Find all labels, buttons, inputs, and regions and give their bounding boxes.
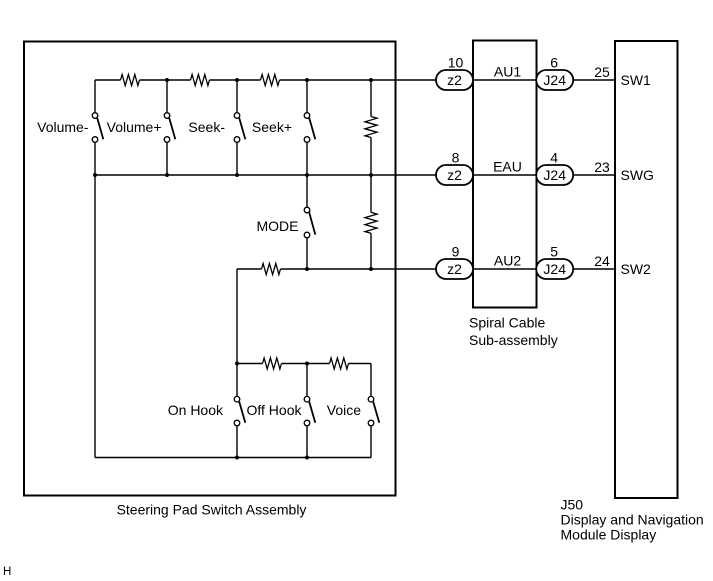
svg-text:Volume+: Volume+ [107, 119, 162, 135]
node: top bus junction at Seek- [235, 78, 239, 82]
resistor between Volume+ and Seek- [191, 75, 210, 86]
node: top bus junction at pull-up resistor column [369, 78, 373, 82]
wire: top bus segment R3 to connector z2 pin 10 [280, 79, 437, 81]
wire: AU2 between z2 and J24 inside spiral cable box [473, 268, 537, 270]
svg-text:Steering Pad Switch Assembly: Steering Pad Switch Assembly [117, 502, 307, 518]
switch Off Hook [304, 396, 315, 425]
wire: bottom bus from Volume- column to Voice column [95, 457, 371, 459]
svg-text:Voice: Voice [327, 402, 361, 418]
svg-text:SWG: SWG [621, 167, 654, 183]
svg-text:AU1: AU1 [494, 64, 521, 80]
switch MODE [304, 207, 315, 238]
wire: Voice column lower lead [370, 426, 372, 458]
resistor between Off Hook and Voice [330, 358, 349, 369]
wire: middle bus EAU from Volume- column to connector z2 pin 8 [95, 174, 437, 176]
svg-text:Module Display: Module Display [561, 527, 657, 543]
resistor vertical between middle bus and AU2 row [365, 212, 377, 233]
svg-text:5: 5 [550, 244, 558, 260]
resistor on AU2 row [262, 264, 281, 275]
wire: AU1 between z2 and J24 inside spiral cable box [473, 79, 537, 81]
svg-text:4: 4 [550, 150, 558, 166]
wire: Seek- column top lead [236, 80, 238, 113]
wire: AU2 row corner segment from hook branch riser [237, 268, 262, 270]
wire: resistor column lead into AU2 row [370, 233, 372, 269]
switch Voice [368, 396, 379, 425]
connector z2 pin 8 [436, 165, 473, 185]
wire: hook branch bus left segment [237, 363, 263, 365]
svg-text:J50: J50 [561, 497, 584, 513]
svg-text:8: 8 [452, 150, 460, 166]
node: middle bus junction at Seek- [235, 173, 239, 177]
connector J24 pin 4 [536, 165, 573, 185]
wire: top bus segment R2 to R3 [210, 79, 261, 81]
svg-text:24: 24 [594, 253, 610, 269]
wire: On Hook column upper lead [236, 364, 238, 397]
svg-text:Seek+: Seek+ [252, 119, 292, 135]
wire: Seek+ column lower lead [306, 142, 308, 175]
svg-text:Sub-assembly: Sub-assembly [469, 332, 558, 348]
svg-text:AU2: AU2 [494, 253, 521, 269]
wire: Seek- column lower lead [236, 142, 238, 175]
connector z2 pin 9 [436, 259, 473, 279]
resistor vertical between top bus and middle bus [365, 117, 377, 138]
wire: AU2 row to connector z2 pin 9 [281, 268, 437, 270]
switch Seek- [234, 113, 245, 143]
wire: hook branch bus right segment to Voice column [349, 363, 372, 365]
node: middle bus junction at Volume+ [165, 173, 169, 177]
resistor between Volume- and Volume+ [121, 75, 140, 86]
node: top bus junction at Volume+ [165, 78, 169, 82]
switch Seek+ [304, 113, 315, 143]
node: bottom bus junction at Off Hook [305, 456, 309, 460]
node: top bus junction at Seek+ [305, 78, 309, 82]
node: middle bus junction at Volume- [93, 173, 97, 177]
svg-text:25: 25 [594, 64, 610, 80]
wire: resistor column lead below middle bus [370, 175, 372, 212]
wire: MODE column upper lead from middle bus [306, 175, 308, 207]
svg-text:9: 9 [452, 244, 460, 260]
svg-text:Seek-: Seek- [188, 119, 225, 135]
svg-text:z2: z2 [447, 261, 462, 277]
node: hook bus junction at Off Hook column [305, 362, 309, 366]
wire: riser from AU2 row down to hook branch [236, 269, 238, 364]
wire: Volume- column top lead [94, 80, 96, 113]
wire: pull-up resistor column upper lead row1 [370, 80, 372, 117]
svg-text:Volume-: Volume- [37, 119, 89, 135]
wire: Volume+ column lower lead [166, 142, 168, 175]
wire: 23 from J24 to J50 module [573, 174, 615, 176]
wire: On Hook column lower lead [236, 426, 238, 458]
box: J50 Display and Navigation Module Display outline [615, 41, 678, 498]
resistor between Seek- and Seek+ [261, 75, 280, 86]
wire: Seek+ column top lead [306, 80, 308, 113]
switch Volume+ [164, 113, 175, 143]
svg-text:EAU: EAU [493, 159, 522, 175]
svg-text:MODE: MODE [257, 218, 299, 234]
svg-text:z2: z2 [447, 167, 462, 183]
connector J24 pin 6 [536, 70, 573, 90]
svg-text:10: 10 [448, 55, 464, 71]
wire: top bus segment R1 to R2 [140, 79, 191, 81]
switch Volume- [92, 113, 103, 143]
wire: Volume+ column top lead [166, 80, 168, 113]
node: hook bus junction at On Hook column [235, 362, 239, 366]
svg-text:z2: z2 [447, 72, 462, 88]
wire: MODE column lower lead to AU2 row [306, 238, 308, 269]
svg-text:Display and Navigation: Display and Navigation [561, 512, 704, 528]
wire: hook branch bus middle segment [282, 363, 330, 365]
resistor between On Hook and Off Hook [263, 358, 282, 369]
wire: 24 from J24 to J50 module [573, 268, 615, 270]
wire: Off Hook column upper lead [306, 364, 308, 397]
switch On Hook [234, 396, 245, 425]
connector z2 pin 10 [436, 70, 473, 90]
wire: EAU between z2 and J24 inside spiral cable box [473, 174, 537, 176]
node: middle bus junction at Seek+ [305, 173, 309, 177]
svg-text:J24: J24 [543, 261, 566, 277]
box: Steering Pad Switch Assembly outline [24, 42, 396, 496]
svg-text:SW2: SW2 [621, 261, 652, 277]
svg-text:6: 6 [550, 55, 558, 71]
svg-text:J24: J24 [543, 72, 566, 88]
wire: 25 from J24 to J50 module [573, 79, 615, 81]
wire: pull-up resistor column lead into middle bus [370, 138, 372, 176]
wire: Volume- column lower lead down through middle bus to bottom bus [94, 142, 96, 457]
node: middle bus junction at resistor column [369, 173, 373, 177]
wire: Voice column upper lead [370, 364, 372, 397]
svg-text:Spiral Cable: Spiral Cable [469, 315, 545, 331]
svg-text:23: 23 [594, 159, 610, 175]
connector J24 pin 5 [536, 259, 573, 279]
node: bottom bus junction at On Hook [235, 456, 239, 460]
svg-text:J24: J24 [543, 167, 566, 183]
svg-text:H: H [3, 566, 11, 578]
box: Spiral Cable Sub-assembly outline [473, 41, 537, 308]
svg-text:On Hook: On Hook [168, 402, 224, 418]
node: AU2 row junction at MODE column [305, 267, 309, 271]
svg-text:Off Hook: Off Hook [247, 402, 303, 418]
node: AU2 row junction at resistor column [369, 267, 373, 271]
svg-text:SW1: SW1 [621, 72, 652, 88]
wire: top bus segment Volume- to R1 [95, 79, 121, 81]
wire: Off Hook column lower lead [306, 426, 308, 458]
